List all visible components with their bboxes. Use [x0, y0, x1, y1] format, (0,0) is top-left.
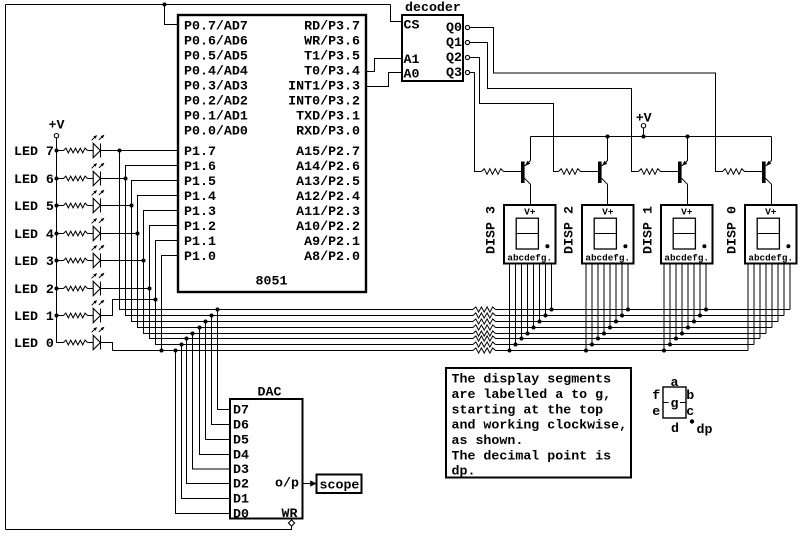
wire Q3 to R1 — [470, 73, 482, 172]
svg-text:e: e — [652, 404, 660, 419]
resistor LED 7 series — [64, 148, 88, 153]
svg-text:P1.6: P1.6 — [184, 159, 216, 174]
svg-text:LED 3: LED 3 — [14, 254, 54, 269]
segment label dp — [697, 422, 713, 437]
pin label TXD/P3.1 — [296, 109, 360, 124]
svg-text:T1/P3.5: T1/P3.5 — [304, 49, 360, 64]
svg-text:dp.: dp. — [452, 464, 476, 479]
wire segment bus row P1.6 with resistor — [126, 179, 785, 319]
pin label RXD/P3.0 — [296, 124, 360, 139]
svg-text:b: b — [686, 388, 694, 403]
svg-text:decoder: decoder — [405, 0, 461, 15]
svg-text:D0: D0 — [233, 507, 249, 522]
svg-text:P1.5: P1.5 — [184, 174, 216, 189]
junction rail/Q2 emitter — [606, 135, 610, 139]
wire DAC D0 to bus P1.0 — [174, 349, 231, 514]
wire LED anode rail — [56, 138, 58, 343]
pin label CS — [404, 17, 420, 32]
diode LED 2 — [57, 273, 105, 296]
wire DAC D6 to bus P1.6 — [210, 314, 231, 425]
label LED 7 — [14, 144, 54, 159]
wire DAC D7 to bus P1.7 — [216, 308, 231, 410]
wire segment bus row P1.7 with resistor — [120, 151, 791, 313]
label LED 1 — [14, 309, 54, 324]
pin label INT0/P3.2 — [288, 94, 360, 109]
svg-text:starting at the top: starting at the top — [452, 402, 604, 417]
svg-text:P1.1: P1.1 — [184, 234, 216, 249]
label scope — [320, 478, 360, 493]
svg-text:A12/P2.4: A12/P2.4 — [296, 189, 360, 204]
transistor Q3 (PNP driver DISP 1) — [661, 137, 688, 206]
note box (segment naming) — [446, 368, 631, 479]
wire DAC D3 to bus P1.3 — [191, 332, 231, 470]
wire Q0 to R4 — [470, 28, 723, 172]
pins a-dp of DISP 2 to segment bus — [584, 264, 630, 353]
junction anode rail / LED 7 — [55, 149, 59, 153]
label LED 5 — [14, 199, 54, 214]
svg-text:T0/P3.4: T0/P3.4 — [304, 64, 360, 79]
segment label g — [671, 396, 679, 411]
svg-text:and working clockwise,: and working clockwise, — [452, 418, 628, 433]
svg-text:LED 4: LED 4 — [14, 227, 54, 242]
wire DAC D5 to bus P1.5 — [204, 320, 231, 440]
label DISP 0 (rotated) — [725, 206, 740, 254]
wire P1.5 to LED 5 and bus — [100, 181, 178, 208]
svg-text:abcdefg.: abcdefg. — [507, 253, 552, 264]
IC U1 8051 box — [178, 15, 366, 292]
wire left rail (WR net) — [5, 5, 7, 530]
svg-text:INT1/P3.3: INT1/P3.3 — [288, 79, 360, 94]
transistor Q2 (PNP driver DISP 2) — [581, 137, 608, 206]
wire T0/P3.4 to A1 — [366, 59, 402, 72]
wire segment bus row P1.2 with resistor — [150, 289, 761, 342]
wire segment bus row P1.5 with resistor — [132, 206, 779, 325]
label DAC — [258, 385, 282, 400]
pin label P0.2/AD2 — [184, 94, 248, 109]
svg-text:A9/P2.1: A9/P2.1 — [304, 234, 360, 249]
svg-text:D4: D4 — [233, 448, 249, 463]
pin label T0/P3.4 — [304, 64, 360, 79]
svg-text:Q3: Q3 — [446, 65, 462, 80]
wire bottom rail (WR net) — [6, 526, 292, 530]
pin label Q1 — [446, 35, 462, 50]
svg-text:P0.0/AD0: P0.0/AD0 — [184, 124, 248, 139]
svg-text:abcdefg.: abcdefg. — [585, 253, 630, 264]
segment label c — [686, 404, 694, 419]
segment dp dot — [690, 419, 694, 423]
label DISP 2 (rotated) — [562, 206, 577, 254]
svg-text:o/p: o/p — [275, 476, 299, 491]
junction top rail to P0.7 — [163, 3, 167, 7]
svg-text:DAC: DAC — [258, 385, 282, 400]
wire LED 0 riser — [100, 343, 112, 351]
svg-text:scope: scope — [320, 478, 360, 493]
power +V terminal circle (LEDs) — [54, 134, 58, 138]
svg-text:A10/P2.2: A10/P2.2 — [296, 219, 360, 234]
wire Q1 to R3 — [470, 43, 639, 172]
transistor Q4 (PNP driver DISP 0) — [745, 137, 772, 206]
wire emitter rail — [531, 136, 772, 138]
wire DAC D4 to bus P1.4 — [198, 326, 231, 455]
pin label D4 — [233, 448, 249, 463]
pin label A15/P2.7 — [296, 144, 360, 159]
pin label Q2 — [446, 50, 462, 65]
wire DAC D2 to bus P1.2 — [185, 337, 231, 484]
svg-text:DISP 1: DISP 1 — [641, 206, 656, 254]
wire P1.7/LED 7 net — [100, 149, 178, 153]
svg-text:V+: V+ — [681, 206, 693, 217]
pin label P0.6/AD6 — [184, 34, 248, 49]
pin label Q0 — [446, 20, 462, 35]
svg-text:A13/P2.5: A13/P2.5 — [296, 174, 360, 189]
segment label e — [652, 404, 660, 419]
pin label A8/P2.0 — [304, 249, 360, 264]
power +V (displays) — [636, 111, 652, 126]
svg-text:LED 2: LED 2 — [14, 282, 54, 297]
svg-text:a: a — [671, 375, 679, 390]
resistor R1 (base of Q1) — [482, 169, 504, 175]
svg-text:Q2: Q2 — [446, 50, 462, 65]
svg-text:V+: V+ — [524, 206, 536, 217]
svg-text:A15/P2.7: A15/P2.7 — [296, 144, 360, 159]
pin label P1.7 — [184, 144, 216, 159]
pin label A9/P2.1 — [304, 234, 360, 249]
label decoder — [405, 0, 461, 15]
pin label D6 — [233, 418, 249, 433]
svg-text:LED 1: LED 1 — [14, 309, 54, 324]
svg-text:are labelled a to g,: are labelled a to g, — [452, 387, 612, 402]
pin label D1 — [233, 492, 249, 507]
svg-text:abcdefg.: abcdefg. — [664, 253, 709, 264]
pin label P0.0/AD0 — [184, 124, 248, 139]
pin label D3 — [233, 462, 249, 477]
wire P1.0 column — [160, 256, 179, 353]
pin label WR — [282, 506, 298, 521]
svg-text:c: c — [686, 404, 694, 419]
wire segment bus row P1.0 with resistor — [113, 348, 749, 353]
pin circle Q3 — [465, 70, 469, 74]
resistor R2 (base of Q2) — [559, 169, 581, 175]
pin label A11/P2.3 — [296, 204, 360, 219]
pin label A1 — [404, 52, 420, 67]
transistor Q1 (PNP driver DISP 3) — [504, 137, 531, 206]
pin label A10/P2.2 — [296, 219, 360, 234]
7-segment display DISP 0 — [745, 205, 797, 264]
pin label Q3 — [446, 65, 462, 80]
junction rail/Q1 emitter — [686, 135, 690, 139]
wire P1.2 to LED 2 and bus — [100, 226, 178, 291]
wire top rail (WR net) — [6, 4, 391, 6]
svg-text:A1: A1 — [404, 52, 420, 67]
pin circle Q2 — [465, 55, 469, 59]
wire P1.4 to LED 4 and bus — [100, 196, 178, 236]
svg-text:g: g — [671, 396, 679, 411]
box scope — [317, 475, 362, 494]
label 8051 — [256, 274, 288, 289]
diode LED 1 — [57, 300, 105, 323]
pin diamond DAC WR — [288, 520, 294, 526]
svg-text:LED 6: LED 6 — [14, 172, 54, 187]
resistor LED 4 series — [64, 231, 88, 236]
svg-text:A11/P2.3: A11/P2.3 — [296, 204, 360, 219]
svg-text:P0.2/AD2: P0.2/AD2 — [184, 94, 248, 109]
segment label f — [652, 388, 660, 403]
segment label a — [671, 375, 679, 390]
pin label WR/P3.6 — [304, 34, 360, 49]
svg-text:A0: A0 — [404, 66, 420, 81]
pin label P0.3/AD3 — [184, 79, 248, 94]
label LED 6 — [14, 172, 54, 187]
pin label D0 — [233, 507, 249, 522]
wire +V stem — [643, 128, 645, 137]
svg-text:V+: V+ — [602, 206, 614, 217]
resistor LED 0 series — [64, 340, 88, 345]
svg-text:DISP 3: DISP 3 — [484, 206, 499, 254]
pin label D7 — [233, 403, 249, 418]
svg-text:D5: D5 — [233, 433, 249, 448]
pin circle Q1 — [465, 40, 469, 44]
wire o/p to scope — [303, 480, 317, 486]
svg-text:P0.7/AD7: P0.7/AD7 — [184, 19, 248, 34]
svg-text:D2: D2 — [233, 477, 249, 492]
wire P1.6 to LED 6 and bus — [100, 166, 178, 181]
resistor LED 1 series — [64, 313, 88, 318]
svg-text:P1.7: P1.7 — [184, 144, 216, 159]
svg-text:Q1: Q1 — [446, 35, 462, 50]
segment diagram rect — [663, 387, 686, 418]
svg-text:+V: +V — [49, 117, 65, 132]
junction rail/+V stem — [642, 135, 646, 139]
7-segment display DISP 1 — [661, 205, 713, 264]
IC U3 DAC box — [230, 399, 303, 519]
IC U2 decoder box — [402, 15, 463, 81]
pin label A13/P2.5 — [296, 174, 360, 189]
pin label P1.2 — [184, 219, 216, 234]
svg-text:P0.4/AD4: P0.4/AD4 — [184, 64, 248, 79]
svg-text:D6: D6 — [233, 418, 249, 433]
svg-text:WR: WR — [282, 506, 298, 521]
svg-text:INT0/P3.2: INT0/P3.2 — [288, 94, 360, 109]
pin label A14/P2.6 — [296, 159, 360, 174]
svg-text:f: f — [652, 388, 660, 403]
label DISP 1 (rotated) — [641, 206, 656, 254]
svg-text:P0.3/AD3: P0.3/AD3 — [184, 79, 248, 94]
svg-text:The display segments: The display segments — [452, 372, 612, 387]
pin label A12/P2.4 — [296, 189, 360, 204]
svg-text:P1.0: P1.0 — [184, 249, 216, 264]
power +V terminal circle — [641, 124, 645, 128]
svg-text:D3: D3 — [233, 462, 249, 477]
wire P1.3 to LED 3 and bus — [100, 211, 178, 263]
junction anode rail / LED 5 — [55, 204, 59, 208]
wire segment bus row P1.1 with resistor — [156, 300, 755, 348]
wire segment bus row P1.4 with resistor — [138, 234, 773, 331]
pin label P1.3 — [184, 204, 216, 219]
svg-text:D1: D1 — [233, 492, 249, 507]
wire DAC D1 to bus P1.1 — [180, 343, 231, 499]
diode LED 6 — [57, 163, 105, 186]
resistor LED 3 series — [64, 258, 88, 263]
svg-text:The decimal point is: The decimal point is — [452, 448, 612, 463]
svg-text:DISP 2: DISP 2 — [562, 206, 577, 254]
svg-text:P0.6/AD6: P0.6/AD6 — [184, 34, 248, 49]
svg-text:CS: CS — [404, 17, 420, 32]
pin label P1.6 — [184, 159, 216, 174]
power +V (LEDs) — [49, 117, 65, 132]
resistor R3 (base of Q3) — [639, 169, 661, 175]
wire top rail to decoder CS — [391, 5, 403, 22]
svg-text:LED 7: LED 7 — [14, 144, 54, 159]
resistor LED 6 series — [64, 176, 88, 181]
pins a-dp of DISP 3 to segment bus — [508, 264, 554, 353]
pin label P0.7/AD7 — [184, 19, 248, 34]
pins a-dp of DISP 1 to segment bus — [662, 264, 708, 353]
svg-text:RD/P3.7: RD/P3.7 — [304, 19, 360, 34]
label LED 0 — [14, 336, 54, 351]
svg-text:as shown.: as shown. — [452, 433, 524, 448]
svg-text:RXD/P3.0: RXD/P3.0 — [296, 124, 360, 139]
segment label d — [671, 421, 679, 436]
diode LED 7 — [57, 135, 105, 158]
pin label P1.1 — [184, 234, 216, 249]
junction anode rail / LED 4 — [55, 232, 59, 236]
wire Q2 to R2 — [470, 58, 559, 172]
svg-text:dp: dp — [697, 422, 713, 437]
svg-text:abcdefg.: abcdefg. — [748, 253, 793, 264]
resistor LED 5 series — [64, 203, 88, 208]
diode LED 5 — [57, 190, 105, 213]
label LED 2 — [14, 282, 54, 297]
svg-text:P1.4: P1.4 — [184, 189, 216, 204]
label DISP 3 (rotated) — [484, 206, 499, 254]
pin label INT1/P3.3 — [288, 79, 360, 94]
pin label D2 — [233, 477, 249, 492]
svg-text:P0.1/AD1: P0.1/AD1 — [184, 109, 248, 124]
pin label T1/P3.5 — [304, 49, 360, 64]
svg-text:D7: D7 — [233, 403, 249, 418]
junction anode rail / LED 6 — [55, 177, 59, 181]
pin label P1.4 — [184, 189, 216, 204]
7-segment display DISP 2 — [582, 205, 634, 264]
resistor LED 2 series — [64, 286, 88, 291]
pin label o/p — [275, 476, 299, 491]
svg-text:8051: 8051 — [256, 274, 288, 289]
svg-text:P0.5/AD5: P0.5/AD5 — [184, 49, 248, 64]
diode LED 3 — [57, 245, 105, 268]
wire top rail to 8051 P0.7 pin — [165, 5, 178, 25]
svg-text:A8/P2.0: A8/P2.0 — [304, 249, 360, 264]
pin circle Q0 — [465, 25, 469, 29]
segment label b — [686, 388, 694, 403]
pins a-dp of DISP 0 to segment bus — [748, 264, 790, 351]
svg-text:TXD/P3.1: TXD/P3.1 — [296, 109, 360, 124]
svg-text:DISP 0: DISP 0 — [725, 206, 740, 254]
diode LED 4 — [57, 218, 105, 241]
junction anode rail / LED 1 — [55, 314, 59, 318]
wire LED 1 riser — [100, 298, 157, 316]
pin label D5 — [233, 433, 249, 448]
svg-text:A14/P2.6: A14/P2.6 — [296, 159, 360, 174]
svg-text:Q0: Q0 — [446, 20, 462, 35]
label LED 4 — [14, 227, 54, 242]
svg-text:P1.3: P1.3 — [184, 204, 216, 219]
label LED 3 — [14, 254, 54, 269]
junction anode rail / LED 3 — [55, 259, 59, 263]
resistor R4 (base of Q4) — [723, 169, 745, 175]
wire INT1/P3.3 to A0 — [366, 73, 402, 87]
junction anode rail / LED 2 — [55, 287, 59, 291]
wire segment bus row P1.3 with resistor — [144, 261, 767, 337]
7-segment display DISP 3 — [504, 205, 556, 264]
svg-text:LED 5: LED 5 — [14, 199, 54, 214]
diode LED 0 — [57, 327, 105, 350]
svg-text:P1.2: P1.2 — [184, 219, 216, 234]
pin label A0 — [404, 66, 420, 81]
pin label P0.4/AD4 — [184, 64, 248, 79]
pin label RD/P3.7 — [304, 19, 360, 34]
pin label P0.1/AD1 — [184, 109, 248, 124]
svg-text:LED 0: LED 0 — [14, 336, 54, 351]
svg-text:WR/P3.6: WR/P3.6 — [304, 34, 360, 49]
pin label P1.5 — [184, 174, 216, 189]
pin label P0.5/AD5 — [184, 49, 248, 64]
svg-text:d: d — [671, 421, 679, 436]
wire P1.1 column — [156, 241, 179, 345]
pin label P1.0 — [184, 249, 216, 264]
svg-text:V+: V+ — [765, 206, 777, 217]
